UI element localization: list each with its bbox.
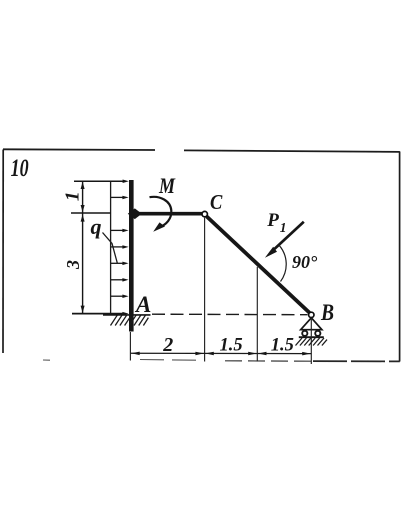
load arrow top (box top edge) bbox=[74, 180, 129, 184]
load arrow 6 bbox=[111, 262, 129, 266]
support base line bbox=[299, 336, 324, 338]
svg-text:10: 10 bbox=[11, 154, 29, 182]
hinge circle C bbox=[202, 211, 207, 216]
dim arrow seg1 left bbox=[131, 352, 140, 356]
ground hatching at B bbox=[296, 338, 328, 346]
svg-text:C: C bbox=[210, 191, 223, 214]
force P1 arrowhead bbox=[265, 247, 277, 258]
dim arrow down at bottom bbox=[81, 306, 85, 313]
svg-text:1: 1 bbox=[62, 191, 84, 201]
svg-text:90°: 90° bbox=[292, 252, 318, 272]
junction diamond node bbox=[128, 208, 142, 219]
load arrow 2 bbox=[111, 196, 129, 200]
projection line below C bbox=[204, 218, 206, 362]
dashed line A-B bbox=[152, 313, 308, 316]
svg-text:A: A bbox=[134, 292, 151, 317]
dim arrow up from below mid line bbox=[81, 214, 85, 221]
svg-text:2: 2 bbox=[162, 334, 173, 356]
force P1 line bbox=[271, 222, 304, 253]
dimension line 1-3 (vertical) bbox=[82, 181, 84, 314]
dim arrow up at top bbox=[81, 182, 85, 189]
load arrow 8 bbox=[111, 295, 129, 299]
horizontal member to C bbox=[133, 212, 202, 216]
load arrow 7 bbox=[111, 278, 129, 282]
dim arrow seg2 right bbox=[248, 352, 257, 356]
dim arrow seg3 right bbox=[302, 352, 311, 356]
svg-text:3: 3 bbox=[63, 260, 83, 270]
roller right bbox=[315, 331, 320, 336]
bottom dimension line bbox=[130, 352, 311, 354]
svg-text:P: P bbox=[266, 210, 279, 231]
ground line at A bbox=[103, 314, 151, 316]
roller support triangle at B bbox=[301, 318, 322, 330]
column (wall beam) bbox=[129, 180, 134, 332]
projection line below B bbox=[310, 318, 312, 364]
extension line below A bbox=[129, 332, 131, 361]
hinge circle B bbox=[309, 312, 314, 317]
distributed load q : left edge of load box bbox=[110, 181, 112, 314]
svg-text:1.5: 1.5 bbox=[220, 335, 243, 355]
ground hatching at A bbox=[111, 315, 149, 326]
dim arrow seg2 left bbox=[205, 352, 214, 356]
roller left bbox=[302, 331, 307, 336]
dimension separator line at member level bbox=[71, 212, 111, 214]
moment arc M bbox=[150, 197, 172, 228]
dim arrow down to mid line bbox=[81, 205, 85, 212]
load arrow 4 bbox=[111, 229, 129, 233]
load arrow 5 bbox=[111, 245, 129, 249]
90 degree arc bbox=[279, 245, 286, 281]
svg-text:1.5: 1.5 bbox=[271, 335, 294, 355]
projection line below P1 intersection bbox=[256, 267, 258, 362]
q leader line bbox=[103, 233, 118, 264]
moment arrowhead bbox=[153, 222, 165, 231]
svg-text:B: B bbox=[320, 299, 334, 325]
diagonal member C-B bbox=[207, 216, 310, 312]
svg-text:M: M bbox=[158, 174, 176, 198]
dim arrow seg3 left bbox=[258, 352, 267, 356]
svg-text:1: 1 bbox=[280, 220, 287, 235]
svg-text:q: q bbox=[91, 214, 102, 239]
load arrow bottom (box bottom edge) bbox=[72, 312, 129, 316]
dim arrow seg1 right bbox=[195, 352, 204, 356]
